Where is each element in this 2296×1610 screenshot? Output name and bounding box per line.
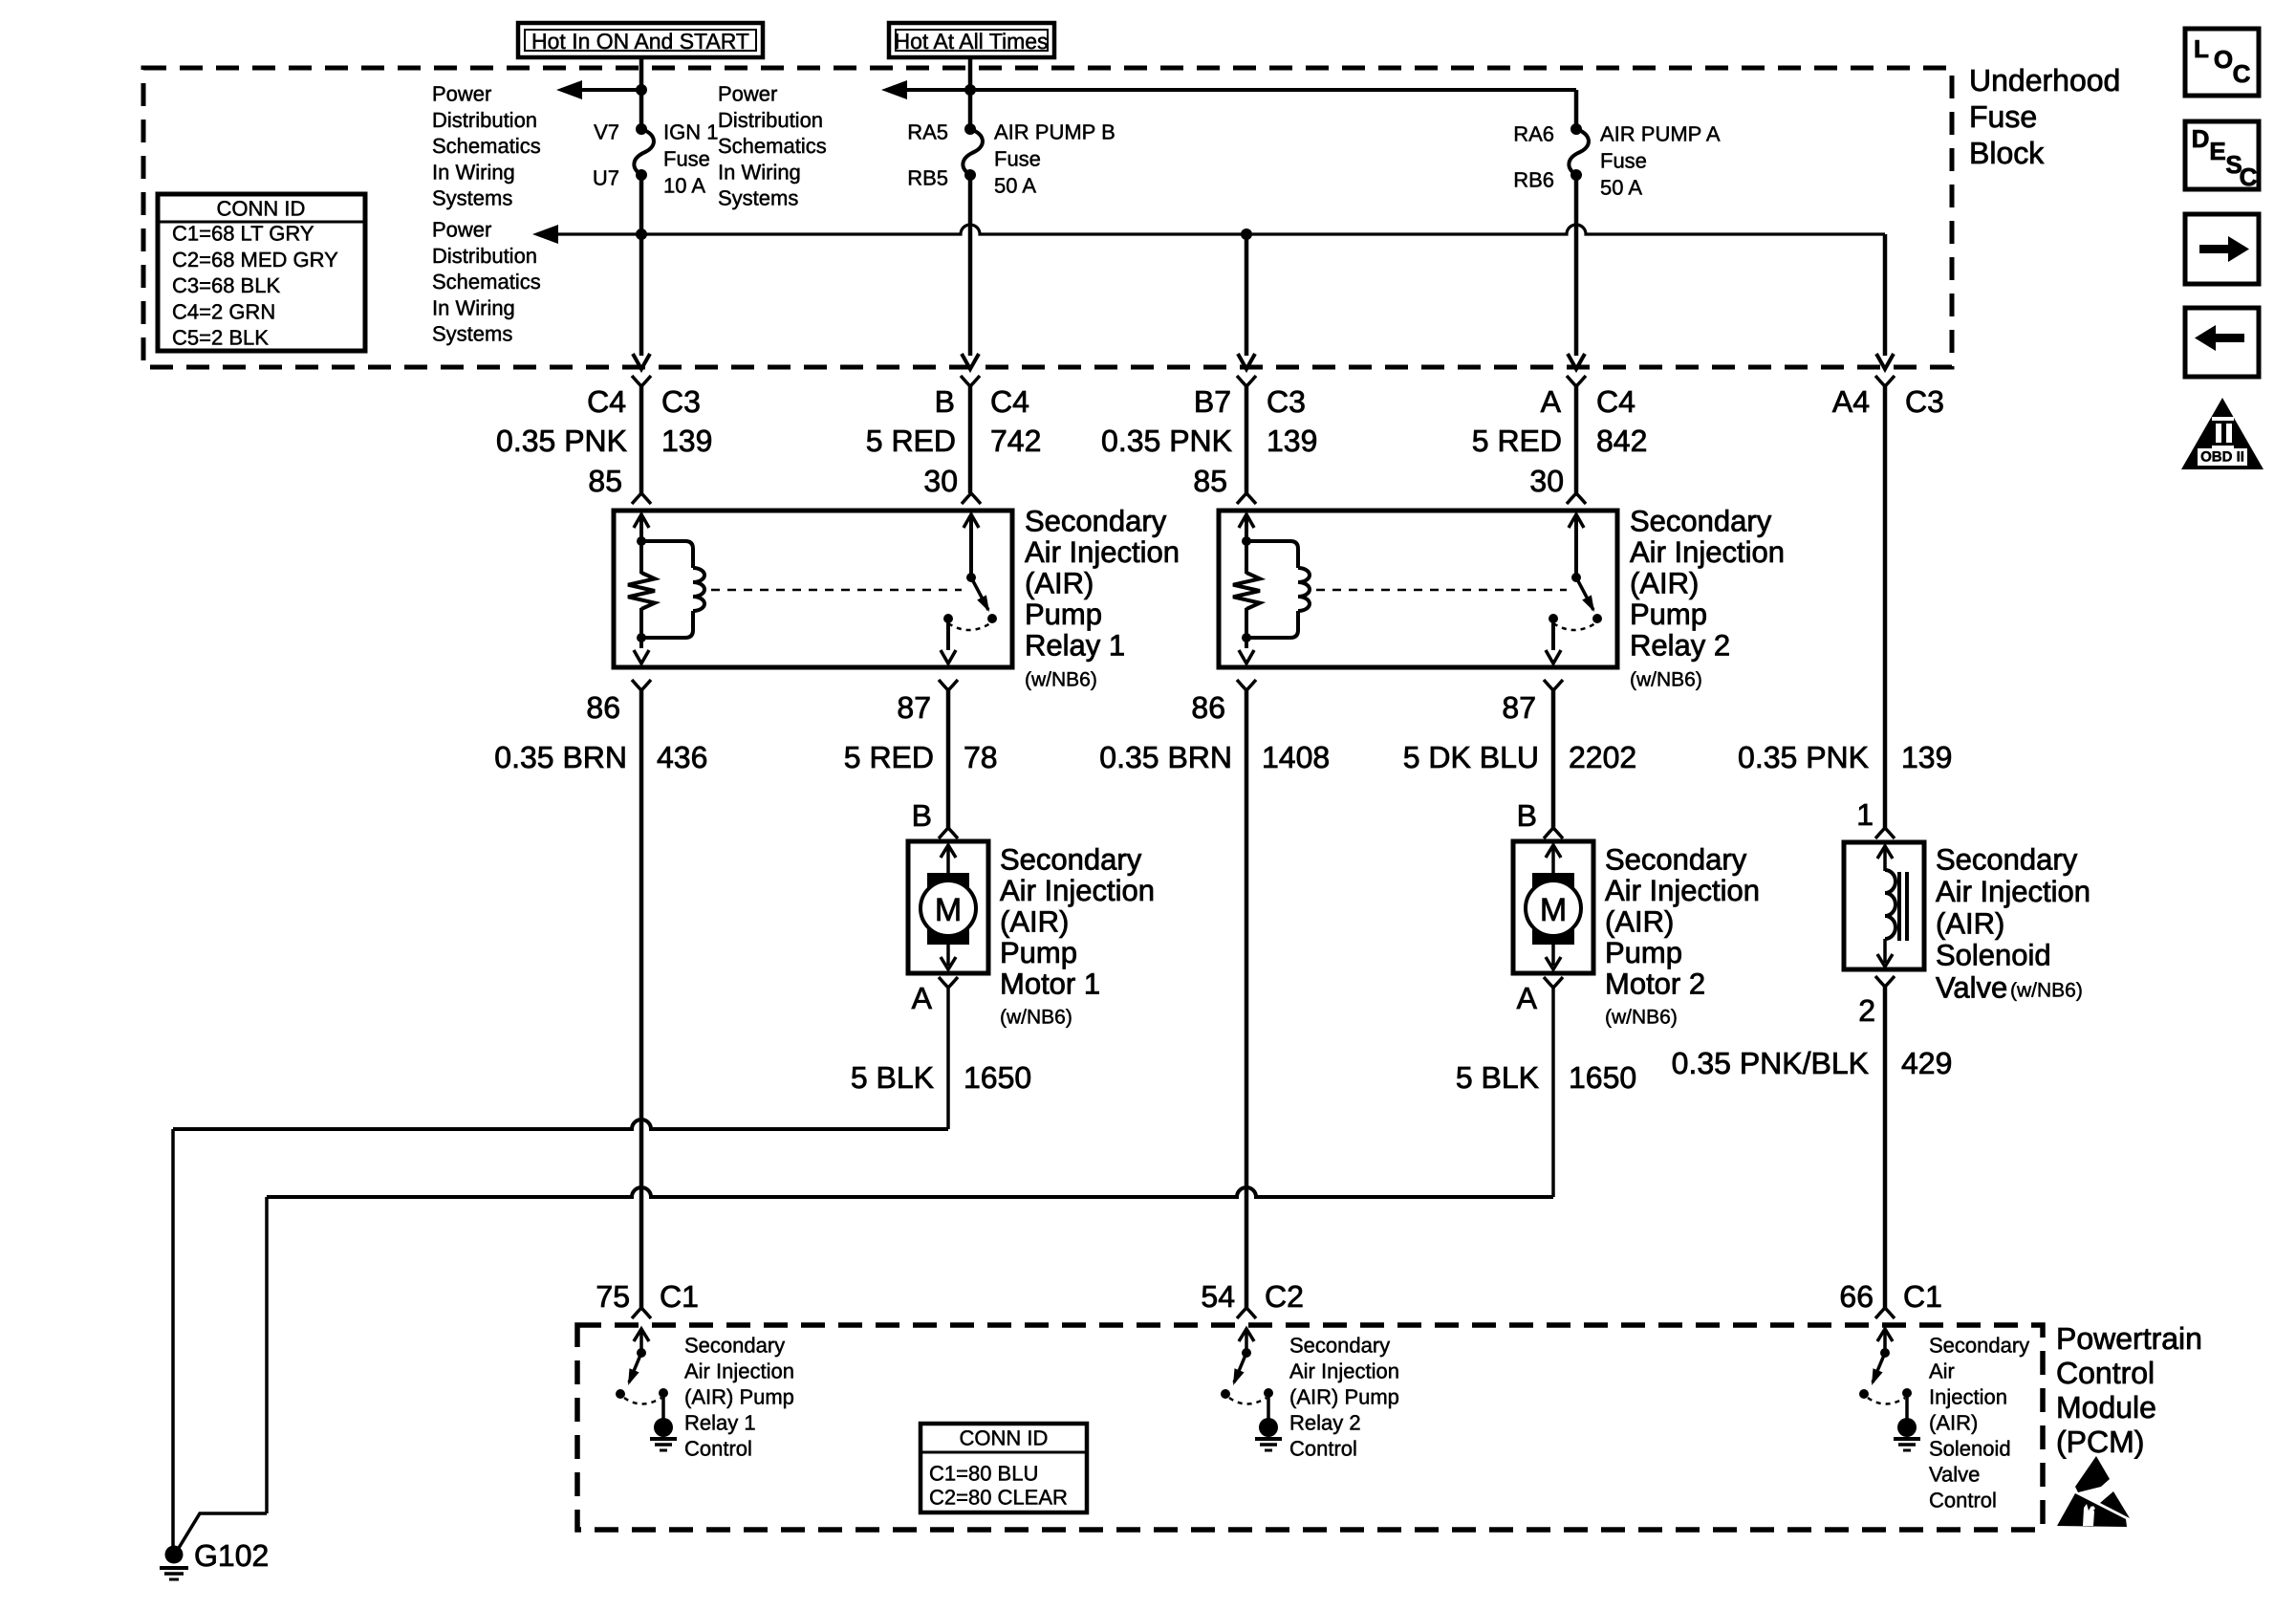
svg-text:C4: C4 [1596, 384, 1635, 419]
PCM internal driver switch: AIR pump relay 1 control [634, 1329, 649, 1341]
relay 2 pin 86 internal arrow [1239, 650, 1254, 664]
fuse AIR PUMP B (RA5/RB5) [964, 123, 976, 135]
svg-text:CONN ID: CONN ID [217, 197, 306, 221]
relay 1 actuation dashed line [711, 589, 962, 592]
svg-text:139: 139 [1901, 740, 1952, 774]
svg-text:0.35 PNK: 0.35 PNK [496, 424, 627, 458]
wire B7 bus tap down [1245, 234, 1249, 356]
icon LOC [2185, 29, 2259, 96]
svg-text:IGN 1: IGN 1 [663, 120, 718, 144]
svg-text:Block: Block [1969, 136, 2045, 170]
fuse block exit arrow at A/C4 [1568, 354, 1585, 369]
svg-text:(w/NB6): (w/NB6) [2010, 980, 2083, 1002]
svg-text:78: 78 [964, 740, 998, 774]
PCM internal ground (AIR pump relay 2 control) [1259, 1418, 1278, 1437]
svg-text:1650: 1650 [964, 1060, 1031, 1095]
relay K2 box: Secondary Air Injection (AIR) Pump Relay 2 [1219, 511, 1617, 667]
fuse block exit arrow at B7/C3 [1238, 354, 1255, 369]
svg-text:B7: B7 [1194, 384, 1231, 419]
relay 2 connector wedge pin 85 [1237, 493, 1256, 504]
svg-text:Valve: Valve [1929, 1463, 1980, 1487]
wire A4 bus corner down [1883, 234, 1888, 356]
svg-text:1: 1 [1856, 797, 1874, 832]
svg-text:(AIR): (AIR) [1000, 905, 1069, 939]
PCM internal driver switch: AIR solenoid valve control [1877, 1329, 1893, 1341]
svg-text:(AIR): (AIR) [1929, 1411, 1978, 1435]
svg-text:C4: C4 [587, 384, 626, 419]
svg-text:L: L [2194, 34, 2209, 63]
svg-text:(w/NB6): (w/NB6) [1630, 669, 1702, 691]
svg-text:C1=68 LT GRY: C1=68 LT GRY [172, 222, 314, 246]
svg-text:Air Injection: Air Injection [1289, 1360, 1399, 1383]
svg-text:5 DK BLU: 5 DK BLU [1403, 740, 1539, 774]
icon arrow next (right) [2185, 214, 2259, 284]
svg-text:C4: C4 [990, 384, 1029, 419]
svg-text:139: 139 [1267, 424, 1317, 458]
relay 2 coil junction node top [1242, 536, 1251, 546]
svg-text:Powertrain: Powertrain [2056, 1321, 2202, 1356]
svg-text:0.35 PNK/BLK: 0.35 PNK/BLK [1672, 1046, 1869, 1080]
svg-text:RA6: RA6 [1513, 122, 1554, 146]
svg-text:(AIR) Pump: (AIR) Pump [684, 1385, 794, 1409]
relay 1 pin 86 internal arrow [634, 650, 649, 664]
svg-text:A: A [912, 981, 933, 1015]
svg-text:U7: U7 [593, 166, 619, 190]
svg-text:In Wiring: In Wiring [432, 295, 515, 319]
svg-text:Hot In ON And START: Hot In ON And START [531, 29, 749, 54]
svg-text:Relay 2: Relay 2 [1630, 629, 1730, 663]
svg-text:C1: C1 [660, 1279, 699, 1314]
relay 2 coil winding branch [1246, 541, 1298, 568]
junction dot at IGN1 feed [636, 84, 647, 96]
underhood fuse block (dashed outline) [143, 68, 1952, 367]
in-line connector B7|C3 [1237, 376, 1256, 386]
relay 1 switch pin 30 arrow and pivot [964, 514, 979, 528]
svg-text:(AIR): (AIR) [1025, 567, 1094, 600]
svg-text:Air Injection: Air Injection [1025, 535, 1180, 569]
svg-text:Distribution: Distribution [718, 108, 823, 132]
svg-text:C2=68 MED GRY: C2=68 MED GRY [172, 248, 338, 272]
in-line connector A|C4 [1567, 376, 1586, 386]
svg-text:Motor 2: Motor 2 [1605, 968, 1705, 1001]
fuse block exit arrow at C4/C3 [633, 354, 650, 369]
svg-text:Secondary: Secondary [1630, 505, 1772, 538]
svg-text:(AIR) Pump: (AIR) Pump [1289, 1385, 1399, 1409]
svg-text:C5=2 BLK: C5=2 BLK [172, 326, 269, 350]
svg-text:M: M [935, 892, 962, 928]
svg-text:RB6: RB6 [1513, 168, 1554, 192]
svg-text:50 A: 50 A [1600, 176, 1642, 200]
relay 1 exit connectors 86/87 [632, 680, 651, 690]
relay 2 exit connectors 86/87 [1237, 680, 1256, 690]
svg-text:Power: Power [432, 82, 491, 106]
svg-text:C2=80 CLEAR: C2=80 CLEAR [929, 1486, 1068, 1510]
svg-text:436: 436 [657, 740, 707, 774]
svg-text:C3=68 BLK: C3=68 BLK [172, 273, 280, 297]
relay K1 box: Secondary Air Injection (AIR) Pump Relay 1 [614, 511, 1012, 667]
svg-text:B: B [912, 798, 932, 833]
svg-text:Secondary: Secondary [1929, 1334, 2029, 1358]
ground wire from motor 1 to G102 [946, 988, 950, 1129]
svg-text:Air Injection: Air Injection [1630, 535, 1785, 569]
relay 2 coil junction node bottom [1242, 633, 1251, 642]
svg-text:0.35 PNK: 0.35 PNK [1738, 740, 1869, 774]
svg-text:Solenoid: Solenoid [1936, 939, 2051, 972]
svg-text:842: 842 [1596, 424, 1647, 458]
fuse block exit arrow at A4/C3 [1876, 354, 1894, 369]
svg-text:Systems: Systems [718, 186, 798, 210]
svg-text:Air Injection: Air Injection [684, 1360, 794, 1383]
svg-text:C4=2 GRN: C4=2 GRN [172, 299, 275, 323]
svg-text:Distribution: Distribution [432, 244, 537, 268]
svg-text:RB5: RB5 [907, 166, 948, 190]
wire relay1 87 down to motor 1 [946, 690, 951, 828]
svg-text:E: E [2209, 137, 2225, 165]
svg-text:C: C [2240, 163, 2258, 191]
svg-text:0.35 PNK: 0.35 PNK [1101, 424, 1232, 458]
wire relay2 86 down to PCM pin 54 [1245, 690, 1249, 1308]
PCM internal ground (AIR solenoid valve control) [1897, 1418, 1917, 1437]
svg-text:Secondary: Secondary [1936, 843, 2078, 877]
svg-text:Schematics: Schematics [718, 134, 827, 158]
svg-text:Distribution: Distribution [432, 108, 537, 132]
wires from connectors down to relays [639, 386, 644, 493]
fuse block exit arrow at B/C4 [962, 354, 979, 369]
in-line connector A4|C3 [1875, 376, 1895, 386]
header box Hot In ON And START [518, 23, 763, 57]
relay 1 connector wedge pin 85 [632, 493, 651, 504]
feed line to AIR PUMP A fuse with arrow [881, 80, 907, 99]
svg-text:5 RED: 5 RED [1472, 424, 1562, 458]
svg-text:In Wiring: In Wiring [718, 160, 801, 184]
PCM internal ground (AIR pump relay 1 control) [654, 1418, 673, 1437]
svg-text:C3: C3 [661, 384, 701, 419]
svg-text:Secondary: Secondary [684, 1334, 785, 1358]
svg-text:Secondary: Secondary [1605, 843, 1747, 877]
svg-text:Fuse: Fuse [1969, 99, 2037, 134]
fuse AIR PUMP A (RA6/RB6) [1570, 123, 1582, 135]
wire IGN1 fuse down to connector C4/C3 [639, 175, 644, 356]
svg-text:Air Injection: Air Injection [1000, 874, 1155, 907]
svg-text:(AIR): (AIR) [1630, 567, 1699, 600]
motor M2 box: Secondary Air Injection (AIR) Pump Motor 2 [1513, 841, 1593, 973]
wire from Hot At All Times to AIR PUMP B fuse [968, 57, 973, 129]
svg-text:Underhood: Underhood [1969, 63, 2120, 98]
svg-text:Control: Control [1289, 1437, 1357, 1461]
svg-text:2202: 2202 [1569, 740, 1636, 774]
wire AIR PUMP A fuse down to connector A/C4 [1574, 175, 1579, 356]
svg-text:Pump: Pump [1025, 598, 1102, 631]
svg-text:Systems: Systems [432, 322, 512, 346]
svg-text:C1: C1 [1903, 1279, 1942, 1314]
wire relay2 87 down to motor 2 [1551, 690, 1556, 828]
relay 2 connector wedge pin 30 [1567, 493, 1586, 504]
valve core bars [1897, 872, 1901, 941]
svg-text:(AIR): (AIR) [1936, 906, 2004, 940]
svg-text:Air Injection: Air Injection [1936, 875, 2090, 908]
svg-text:A: A [1541, 384, 1562, 419]
solenoid valve box: Secondary Air Injection (AIR) Solenoid Valve [1844, 842, 1924, 969]
svg-text:Fuse: Fuse [1600, 149, 1647, 173]
svg-text:86: 86 [586, 690, 620, 725]
svg-text:139: 139 [661, 424, 712, 458]
svg-text:V7: V7 [594, 120, 619, 144]
svg-text:0.35 BRN: 0.35 BRN [494, 740, 627, 774]
svg-text:Air: Air [1929, 1360, 1955, 1383]
svg-text:(w/NB6): (w/NB6) [1605, 1007, 1678, 1029]
relay 1 pin 85 internal arrow [634, 514, 649, 528]
connector wedge at motor 2 pin B [1544, 828, 1563, 838]
svg-text:C2: C2 [1265, 1279, 1304, 1314]
svg-text:66: 66 [1839, 1279, 1874, 1314]
svg-text:RA5: RA5 [907, 120, 948, 144]
svg-text:85: 85 [1193, 464, 1227, 498]
svg-text:G102: G102 [194, 1538, 269, 1573]
svg-text:1408: 1408 [1262, 740, 1330, 774]
wire A4/C3 down to solenoid valve [1883, 386, 1888, 828]
svg-text:(PCM): (PCM) [2056, 1425, 2144, 1459]
motor M1 box: Secondary Air Injection (AIR) Pump Motor 1 [908, 841, 988, 973]
svg-text:87: 87 [1502, 690, 1536, 725]
svg-text:B: B [1517, 798, 1537, 833]
svg-text:Relay 1: Relay 1 [1025, 629, 1125, 663]
svg-text:Module: Module [2056, 1390, 2156, 1425]
relay 2 resistor [1233, 573, 1260, 609]
svg-text:5 RED: 5 RED [866, 424, 956, 458]
svg-text:2: 2 [1858, 993, 1875, 1028]
svg-text:Secondary: Secondary [1025, 505, 1167, 538]
svg-text:(w/NB6): (w/NB6) [1000, 1007, 1072, 1029]
svg-text:Power: Power [432, 218, 491, 242]
connector vee at valve pin 2 [1875, 976, 1895, 987]
CONN ID table (fuse block) [158, 194, 365, 351]
svg-text:In Wiring: In Wiring [432, 160, 515, 184]
svg-text:A: A [1517, 981, 1538, 1015]
svg-text:Control: Control [1929, 1489, 1997, 1512]
svg-text:742: 742 [990, 424, 1041, 458]
svg-text:1650: 1650 [1569, 1060, 1636, 1095]
svg-text:Fuse: Fuse [663, 147, 710, 171]
connector wedge at motor 1 pin B [939, 828, 958, 838]
relay 2 switch pin 30 arrow and pivot [1569, 514, 1584, 528]
wire relay1 86 down to PCM pin 75 [639, 690, 644, 1308]
in-line connector C4|C3 [632, 376, 651, 386]
svg-text:30: 30 [1529, 464, 1564, 498]
PCM pin 54 C2 connector [1237, 1308, 1256, 1318]
svg-text:Motor 1: Motor 1 [1000, 968, 1100, 1001]
svg-text:Valve: Valve [1936, 971, 2007, 1005]
svg-text:86: 86 [1191, 690, 1225, 725]
fuse IGN 1 (V7/U7) [636, 123, 647, 135]
svg-text:5 BLK: 5 BLK [1456, 1060, 1539, 1095]
relay 2 actuation dashed line [1316, 589, 1567, 592]
svg-text:C3: C3 [1905, 384, 1944, 419]
svg-text:Pump: Pump [1630, 598, 1707, 631]
svg-text:B: B [935, 384, 955, 419]
svg-text:75: 75 [596, 1279, 630, 1314]
relay 1 coil junction node top [637, 536, 646, 546]
svg-text:Systems: Systems [432, 186, 512, 210]
svg-text:C3: C3 [1267, 384, 1306, 419]
relay 1 coil winding branch [641, 541, 693, 568]
svg-text:54: 54 [1201, 1279, 1235, 1314]
svg-text:Hot At All Times: Hot At All Times [894, 29, 1048, 54]
ESD-sensitive symbol [2075, 1456, 2110, 1492]
valve coil [1885, 870, 1895, 939]
svg-text:Relay 1: Relay 1 [684, 1411, 756, 1435]
svg-text:0.35 BRN: 0.35 BRN [1099, 740, 1232, 774]
relay 1 connector wedge pin 30 [962, 493, 981, 504]
wire AIR PUMP B fuse down to connector B/C4 [968, 175, 973, 356]
junction dot bus at IGN1 wire [636, 228, 647, 240]
connector wedge at valve pin 1 [1875, 828, 1895, 838]
svg-text:Relay 2: Relay 2 [1289, 1411, 1361, 1435]
svg-text:Schematics: Schematics [432, 270, 541, 294]
svg-text:10 A: 10 A [663, 174, 705, 198]
svg-text:AIR PUMP A: AIR PUMP A [1600, 122, 1721, 146]
PCM pin 75 C1 connector [632, 1308, 651, 1318]
svg-text:30: 30 [923, 464, 958, 498]
svg-text:5 RED: 5 RED [844, 740, 934, 774]
connector vee at motor 1 pin A [939, 977, 958, 988]
header box Hot At All Times [889, 23, 1054, 57]
relay 2 pin 85 internal arrow [1239, 514, 1254, 528]
svg-text:(AIR): (AIR) [1605, 905, 1674, 939]
svg-text:Pump: Pump [1605, 936, 1682, 969]
svg-text:Schematics: Schematics [432, 134, 541, 158]
ground wire from motor 2 to G102 [1551, 988, 1555, 1197]
svg-text:Secondary: Secondary [1000, 843, 1142, 877]
svg-text:85: 85 [588, 464, 622, 498]
junction dot Hot At All Times [964, 84, 976, 96]
icon DESC [2185, 121, 2259, 189]
svg-text:O: O [2214, 45, 2233, 74]
svg-text:87: 87 [897, 690, 931, 725]
svg-text:Injection: Injection [1929, 1385, 2007, 1409]
wire valve pin 2 down to PCM pin 66 [1883, 987, 1888, 1308]
svg-text:5 BLK: 5 BLK [851, 1060, 934, 1095]
svg-text:M: M [1540, 892, 1567, 928]
svg-text:Secondary: Secondary [1289, 1334, 1390, 1358]
Powertrain Control Module (dashed outline) [577, 1325, 2043, 1530]
svg-text:Pump: Pump [1000, 936, 1077, 969]
svg-text:C1=80 BLU: C1=80 BLU [929, 1462, 1038, 1486]
svg-text:Power: Power [718, 82, 777, 106]
ground G102 [165, 1546, 184, 1564]
connector vee at motor 2 pin A [1544, 977, 1563, 988]
PCM pin 66 C1 connector [1875, 1308, 1895, 1318]
svg-text:D: D [2192, 124, 2210, 153]
svg-text:Control: Control [2056, 1356, 2155, 1390]
svg-text:CONN ID: CONN ID [960, 1426, 1049, 1450]
svg-text:OBD II: OBD II [2200, 449, 2244, 466]
svg-text:Air Injection: Air Injection [1605, 874, 1760, 907]
icon OBD II triangle [2181, 398, 2264, 469]
CONN ID table (PCM) [921, 1424, 1087, 1512]
wire from Hot In ON And START to IGN 1 fuse [639, 57, 644, 129]
feed line 1 left (to power distribution) with arrow [556, 80, 582, 99]
ignition feed bus line with arrow (139 circuit) [532, 225, 558, 244]
svg-text:(w/NB6): (w/NB6) [1025, 669, 1097, 691]
svg-text:A4: A4 [1832, 384, 1870, 419]
junction dot bus at B7 wire [1241, 228, 1252, 240]
svg-text:C: C [2233, 59, 2251, 88]
svg-text:429: 429 [1901, 1046, 1952, 1080]
PCM internal driver switch: AIR pump relay 2 control [1239, 1329, 1254, 1341]
relay 1 resistor [628, 573, 655, 609]
svg-text:Solenoid: Solenoid [1929, 1437, 2011, 1461]
in-line connector B|C4 [961, 376, 980, 386]
svg-text:50 A: 50 A [994, 174, 1036, 198]
relay 1 coil junction node bottom [637, 633, 646, 642]
svg-text:AIR PUMP B: AIR PUMP B [994, 120, 1116, 144]
icon arrow prev (left) [2185, 308, 2259, 377]
svg-text:Fuse: Fuse [994, 147, 1041, 171]
svg-text:Control: Control [684, 1437, 752, 1461]
